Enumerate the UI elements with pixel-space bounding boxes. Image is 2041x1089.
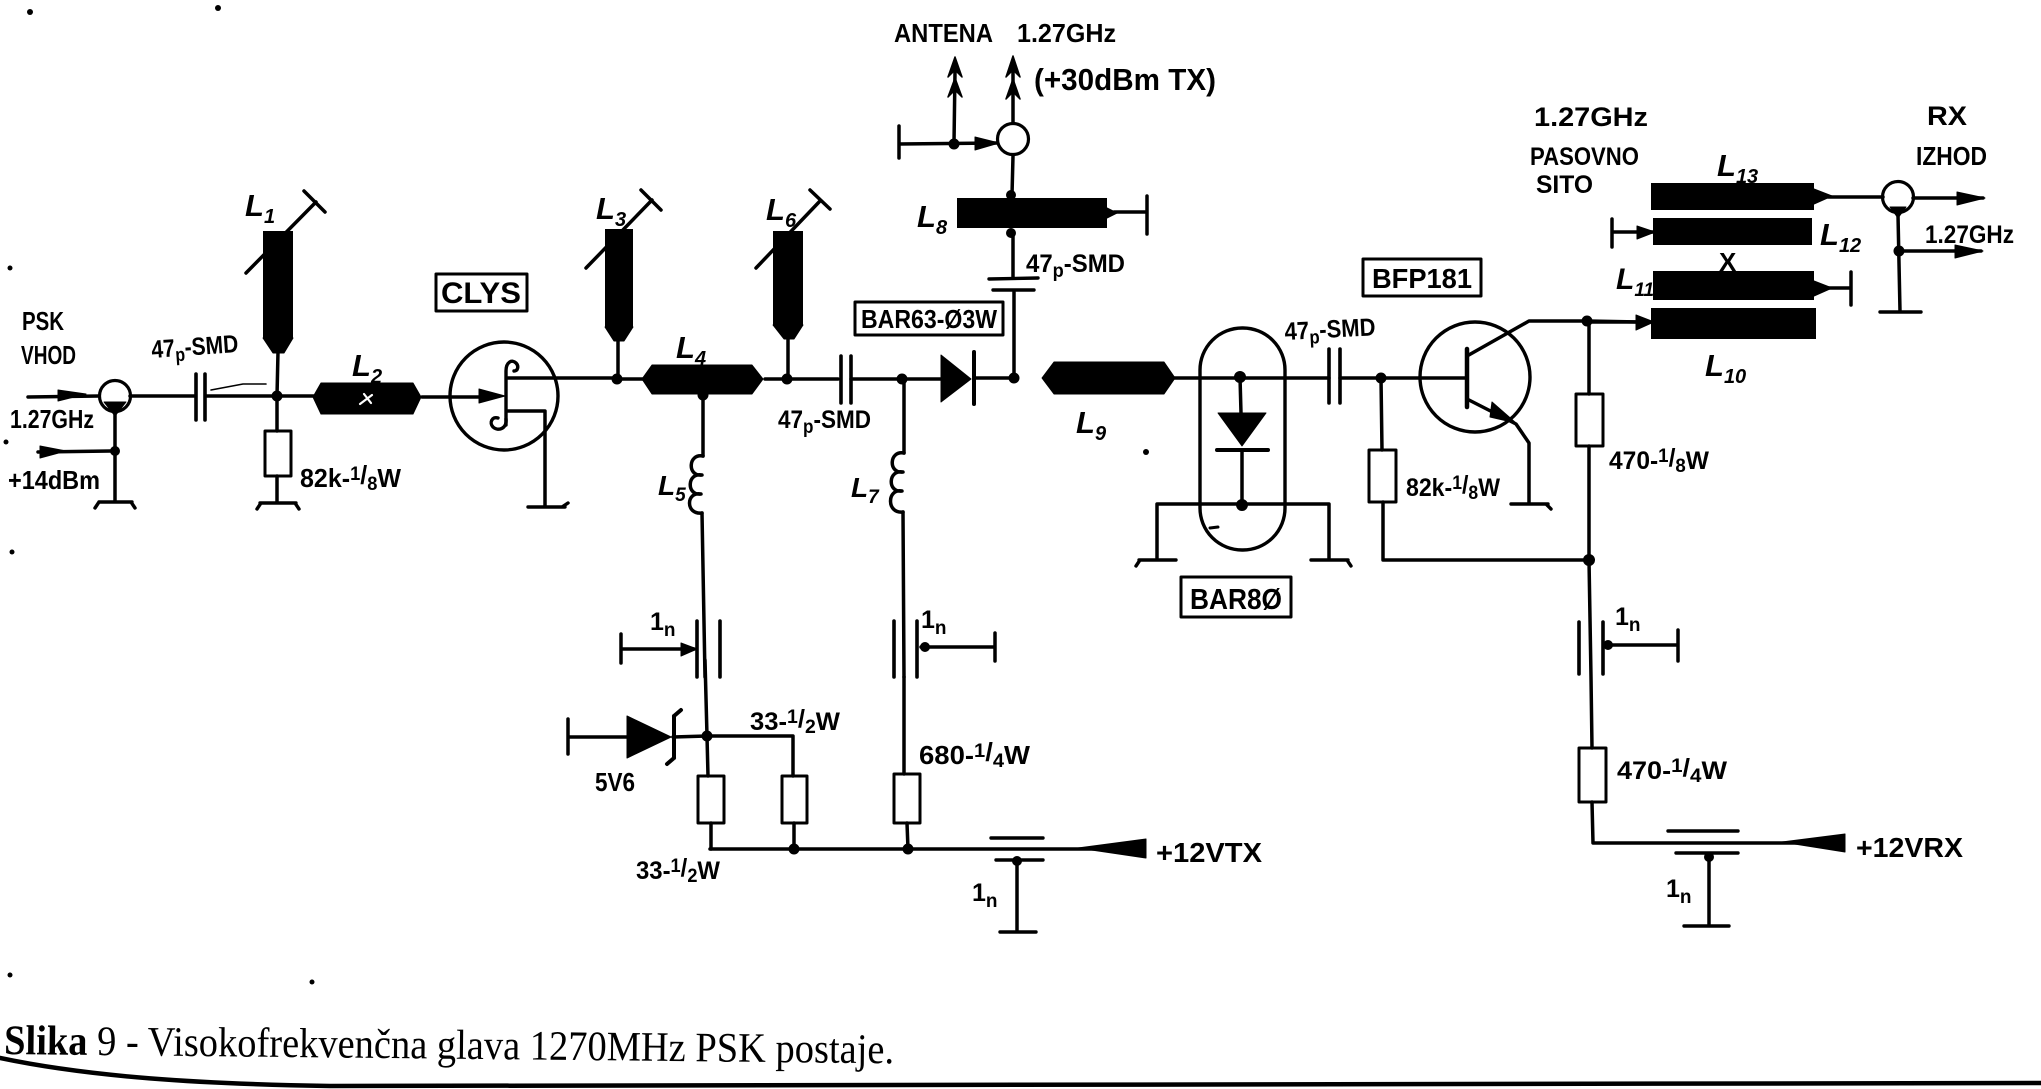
inductor L4 [642, 365, 763, 394]
wire +14dBm [38, 451, 111, 452]
wire RX out arrow [1913, 196, 1983, 200]
ground under J1 [95, 502, 135, 508]
capacitor 1n feedthrough right [1579, 622, 1603, 674]
ground left BAR80 [1136, 560, 1176, 566]
node junction antenna branch [1009, 373, 1019, 383]
wire C4 to Q1 base [1340, 376, 1467, 380]
svg-text:IZHOD: IZHOD [1916, 141, 1987, 171]
resistor R5 33-1/2W [782, 776, 807, 823]
svg-text:+14dBm: +14dBm [8, 465, 100, 495]
inductor L13 [1651, 183, 1814, 210]
ground under J3 [1880, 310, 1921, 313]
trimmer arrow L1 [246, 191, 325, 273]
inductor L5 coil [701, 395, 705, 456]
svg-text:1n: 1n [650, 608, 676, 641]
svg-text:L4: L4 [676, 330, 706, 370]
svg-text:1.27GHz: 1.27GHz [1017, 18, 1116, 48]
resistor R4 33-1/2W [698, 776, 724, 823]
node junction L6 [782, 374, 792, 384]
svg-text:82k-1/8W: 82k-1/8W [1406, 471, 1500, 504]
node junction L3 [612, 374, 622, 384]
wire CLYS tap to node [508, 376, 612, 380]
svg-text:PASOVNO: PASOVNO [1530, 143, 1639, 171]
antenna arrow left [954, 72, 955, 143]
svg-text:470-1/8W: 470-1/8W [1609, 444, 1709, 477]
BAR63-03W box label [855, 302, 1003, 335]
wire C3 to L8 [1011, 232, 1015, 278]
node 1.27GHz PASOVNO SITO label [1530, 102, 1648, 199]
svg-text:47p-SMD: 47p-SMD [150, 330, 239, 368]
wire +12VTX bus [710, 847, 1128, 851]
svg-text:CLYS: CLYS [441, 277, 521, 310]
CLYS box label [436, 274, 527, 311]
node ANTENA labels [894, 18, 1216, 97]
wire L2 to CLYS [422, 395, 482, 399]
svg-text:L3: L3 [596, 191, 626, 231]
node dash mark [1210, 527, 1218, 528]
wire CLYS lower tap to ground [508, 411, 545, 506]
svg-text:470-1/4W: 470-1/4W [1617, 754, 1727, 787]
svg-text:L8: L8 [917, 199, 948, 239]
wire J1 to C1 [130, 394, 194, 398]
wire C2 to node [851, 377, 902, 381]
node PSK VHOD label [8, 306, 100, 495]
svg-text:L11: L11 [1616, 263, 1654, 301]
diode D1 BAR63 [902, 377, 941, 381]
svg-text:+12VRX: +12VRX [1856, 832, 1963, 863]
svg-text:Slika 9 - Visokofrekvenčna gla: Slika 9 - Visokofrekvenčna glava 1270MHz… [4, 1018, 894, 1073]
connector J2 antenna [998, 124, 1029, 155]
svg-text:BAR63-Ø3W: BAR63-Ø3W [861, 304, 997, 334]
wire L8 up to J2 [1012, 156, 1013, 195]
connector J3 RX out [1883, 182, 1914, 213]
svg-text:SITO: SITO [1536, 171, 1593, 199]
capacitor C2 47p-SMD [841, 356, 851, 403]
transistor Q1 BFP181 [1420, 322, 1530, 432]
node L4 tap [698, 390, 708, 400]
svg-text:1n: 1n [1666, 875, 1692, 908]
inductor L1 [263, 231, 293, 339]
svg-text:1.27GHz: 1.27GHz [10, 404, 94, 434]
svg-text:82k-1/8W: 82k-1/8W [300, 460, 401, 495]
svg-text:1n: 1n [972, 879, 998, 912]
BAR80 box label [1181, 577, 1291, 617]
svg-text:L13: L13 [1717, 148, 1758, 188]
capacitor C3 47p-SMD [989, 278, 1038, 290]
svg-text:L9: L9 [1076, 405, 1107, 445]
node RX IZHOD label [1916, 101, 2014, 249]
wire BAR80 grounds [1157, 504, 1329, 558]
wire L4 to L6 node [765, 377, 787, 381]
inductor L12 [1653, 218, 1812, 245]
wire node up to C3 [1012, 292, 1016, 378]
node junction L1 [272, 391, 282, 401]
svg-text:RX: RX [1927, 101, 1967, 131]
svg-text:L5: L5 [658, 470, 686, 506]
svg-text:PSK: PSK [22, 306, 64, 336]
svg-text:L7: L7 [851, 472, 880, 508]
node antenna branch [949, 139, 959, 149]
page bottom edge [0, 1058, 2041, 1086]
node +14dBm feed [111, 447, 120, 456]
svg-text:L12: L12 [1820, 217, 1861, 257]
wire L6 node to C2 [787, 377, 838, 381]
zener D3 5V6 [568, 719, 627, 754]
caption Slika 9 [4, 1018, 894, 1073]
svg-text:1.27GHz: 1.27GHz [1534, 102, 1648, 132]
wire input [28, 396, 99, 397]
wire J3 down [1898, 215, 1900, 311]
svg-text:VHOD: VHOD [21, 340, 76, 370]
svg-text:BFP181: BFP181 [1372, 263, 1472, 294]
svg-text:BAR8Ø: BAR8Ø [1190, 584, 1282, 616]
node junction R3 bottom [1584, 555, 1595, 566]
node +12VRX supply arrow [1782, 834, 1845, 852]
specks [4, 5, 1150, 985]
wire L9 to C4 through BAR80 [1164, 376, 1329, 380]
svg-text:47p-SMD: 47p-SMD [1284, 313, 1377, 350]
svg-text:L10: L10 [1705, 348, 1746, 388]
resistor R6 680-1/4W [894, 774, 920, 823]
inductor L11 [1653, 271, 1814, 300]
wire L8 right to terminal [1107, 208, 1117, 218]
ground right BAR80 [1311, 560, 1351, 566]
svg-text:1n: 1n [921, 606, 947, 639]
resistor R2 82k-1/8W [1381, 378, 1382, 450]
BFP181 box label [1363, 259, 1481, 296]
svg-text:47p-SMD: 47p-SMD [778, 406, 871, 438]
resistor R1 82k-1/8W [265, 431, 291, 476]
svg-text:ANTENA: ANTENA [894, 18, 993, 48]
node collector junction [1582, 316, 1592, 326]
ground under R1 [257, 503, 299, 509]
inductor L10 [1651, 308, 1816, 339]
ground emitter Q1 [1511, 504, 1551, 509]
inductor L9 [1042, 362, 1175, 394]
svg-text:+12VTX: +12VTX [1156, 837, 1262, 868]
capacitor 1n feedthrough RX bus [1668, 831, 1738, 853]
wire scan artifact [211, 384, 266, 390]
inductor L8 [1007, 229, 1016, 238]
ground under CLYS [528, 503, 568, 507]
svg-text:33-1/2W: 33-1/2W [750, 705, 840, 738]
wire J1 down [113, 413, 117, 501]
inductor L6 [786, 338, 790, 379]
node junction base [1376, 373, 1386, 383]
node junction 1.27GHz arrow [1894, 246, 1904, 256]
inductor L7 coil [902, 379, 906, 453]
resistor R3 470-1/8W [1587, 321, 1591, 394]
svg-text:47p-SMD: 47p-SMD [1026, 250, 1125, 282]
wire node to R5 [707, 736, 793, 776]
inductor L2 [313, 383, 421, 414]
resistor R7 470-1/4W [1579, 748, 1606, 802]
svg-text:1n: 1n [1615, 603, 1641, 636]
node zener junction [702, 731, 712, 741]
svg-text:680-1/4W: 680-1/4W [919, 737, 1030, 772]
node junction L7 [897, 374, 907, 384]
svg-text:33-1/2W: 33-1/2W [636, 854, 720, 887]
capacitor 1n feedthrough L5 line [697, 621, 720, 677]
wire C1 to node [206, 394, 321, 398]
svg-text:5V6: 5V6 [595, 767, 635, 797]
svg-text:L1: L1 [245, 188, 275, 228]
resonator CLYS [450, 342, 558, 450]
arrow input direction [58, 390, 86, 401]
svg-text:1.27GHz: 1.27GHz [1925, 221, 2014, 249]
svg-text:L6: L6 [766, 192, 797, 232]
capacitor 1n feedthrough L7 line [894, 621, 917, 677]
diode D2 BAR80 stadium [1200, 328, 1285, 550]
wire to R6 [902, 677, 906, 774]
antenna arrow right [1011, 72, 1015, 123]
wire down to feedthrough [1589, 560, 1592, 748]
wire node to L4 [617, 377, 643, 381]
node X mark [1719, 247, 1737, 277]
capacitor C4 47p-SMD [1329, 349, 1340, 403]
wire antenna terminal [899, 126, 997, 158]
capacitor 1n feedthrough TX bus [991, 838, 1043, 860]
node +12VTX supply arrow [1078, 839, 1146, 858]
wire to zener node [705, 660, 708, 776]
svg-text:(+30dBm TX): (+30dBm TX) [1034, 62, 1216, 97]
svg-text:L2: L2 [352, 348, 382, 388]
connector J1 [100, 381, 131, 412]
inductor L3 [616, 340, 620, 379]
capacitor C1 47p-SMD [196, 374, 205, 420]
